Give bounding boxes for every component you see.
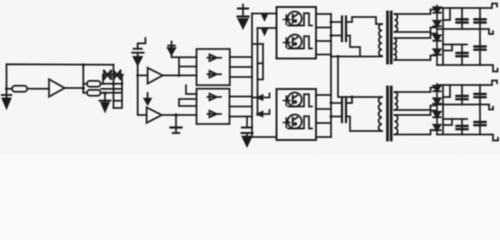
- op-amp A1: [49, 79, 65, 97]
- capacitor C2 to ground arrow: [238, 5, 249, 29]
- node bus x331: [330, 14, 332, 137]
- wire riser to P1: [252, 14, 263, 138]
- wire TR2 taps: [395, 88, 438, 135]
- wire U2 pin stub: [186, 85, 197, 94]
- capacitor C1 to arrow: [132, 38, 145, 65]
- capacitor C9: [475, 29, 486, 65]
- wire D pair left drop: [102, 75, 104, 84]
- arrow into T3: [144, 93, 150, 104]
- ground G1: [2, 89, 11, 108]
- capacitor C4: [331, 17, 382, 29]
- op-amp T3: [147, 107, 162, 123]
- wire A1 out: [65, 87, 84, 89]
- wire U2 comb: [179, 99, 197, 106]
- arrow cap into U1: [168, 42, 179, 58]
- wire C3 stem: [246, 117, 248, 128]
- power module P2: [277, 89, 317, 140]
- capacitor C8: [457, 45, 468, 66]
- amplifier U2: [197, 89, 230, 124]
- diode D2: [114, 71, 121, 79]
- transformer TR2 secondary S2: [395, 115, 398, 135]
- wire rail2 bottom block: [437, 105, 493, 110]
- wire rail1 bottom block: [437, 81, 497, 86]
- node tie left of R2 R3: [82, 84, 84, 93]
- wire link to TR2: [338, 57, 382, 98]
- amplifier U1: [197, 49, 230, 85]
- wire rail3 bottom block: [443, 118, 467, 120]
- arrow P1 in2: [258, 28, 277, 34]
- capacitor C5: [331, 30, 360, 57]
- wire T3 out: [162, 114, 197, 116]
- transistor Q4: [284, 115, 313, 129]
- wire rail4 bottom block: [437, 135, 498, 141]
- wire jog bracket: [258, 44, 264, 80]
- wire U1 comb: [179, 57, 197, 76]
- wire rail2: [437, 29, 493, 34]
- capacitor C6: [457, 8, 468, 29]
- wire rail1 top: [437, 4, 497, 9]
- transformer TR2 primary: [379, 97, 382, 131]
- wire bus x138: [138, 65, 147, 115]
- capacitor C16: [475, 105, 486, 135]
- wire U2 out pins: [230, 97, 253, 117]
- transformer TR1 core: [388, 12, 392, 63]
- wire step link bottom1: [444, 85, 451, 97]
- wire step link bottom2: [444, 119, 452, 125]
- resistor R3: [83, 90, 122, 96]
- resistor R2: [83, 81, 122, 87]
- wire T2 out: [163, 74, 197, 76]
- wire U1 out pins: [230, 57, 252, 77]
- op-amp T2: [148, 68, 163, 84]
- wire rail3: [443, 44, 467, 46]
- wire T2 input: [138, 74, 148, 76]
- power module P1: [277, 7, 317, 59]
- wire rail4: [437, 65, 498, 72]
- arrow P1 in1: [252, 14, 277, 20]
- wire feedback top: [7, 64, 114, 89]
- node second ladder bus: [442, 8, 444, 65]
- transformer TR1 primary: [379, 24, 382, 56]
- transistor Q1: [284, 12, 313, 26]
- arrow P2 in1: [252, 94, 270, 100]
- resistor R1: [12, 86, 27, 92]
- capacitor C3 to ground arrow: [242, 128, 253, 147]
- capacitor C15: [457, 119, 468, 135]
- capacitor C18 to ground: [171, 115, 182, 133]
- wire to TR1 primary bottom: [331, 56, 382, 58]
- wire junction drop: [82, 65, 84, 84]
- wire R1 to A1: [27, 88, 49, 90]
- transformer TR1 secondary S1: [395, 14, 398, 32]
- ground G2: [100, 93, 111, 111]
- capacitor C12: [331, 111, 382, 132]
- node dots: [5, 21, 354, 119]
- transistor Q2: [284, 35, 313, 49]
- wire bus x113: [113, 65, 115, 108]
- arrow P2 in2: [258, 110, 270, 116]
- diode ladder DL1: [433, 6, 440, 66]
- transformer TR2 secondary S1: [395, 92, 398, 110]
- capacitor C7: [475, 8, 486, 29]
- wire mid row: [101, 88, 122, 90]
- capacitor C13: [457, 85, 468, 105]
- wire P1 pins to bus: [316, 14, 331, 55]
- capacitor C14: [475, 85, 486, 105]
- wire step link top: [444, 8, 451, 20]
- diode ladder DL2: [433, 84, 440, 135]
- transformer TR2 core: [388, 87, 392, 140]
- capacitor C11: [331, 97, 352, 109]
- wire input: [7, 88, 13, 90]
- transformer TR1 secondary S2: [395, 38, 397, 60]
- wire ladder rungs: [114, 75, 123, 108]
- wire P2 pins to bus: [316, 95, 331, 137]
- node second ladder bus 2: [442, 85, 444, 135]
- node dot T3 out: [174, 113, 177, 116]
- wire step link mid: [444, 45, 452, 51]
- transistor Q3: [284, 93, 313, 107]
- diode D1: [103, 71, 123, 79]
- wire riser to P2: [252, 136, 277, 138]
- wire TR1 taps: [395, 10, 438, 61]
- wire riser2: [257, 28, 259, 115]
